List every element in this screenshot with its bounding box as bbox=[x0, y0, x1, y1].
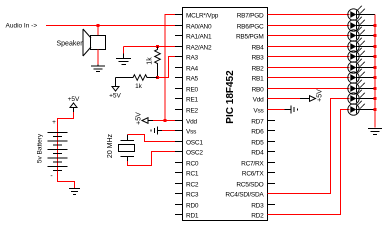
node: junction of R1, R2 and RA3 wire bbox=[156, 76, 159, 79]
battery BT1 5v bbox=[48, 119, 68, 180]
wire: Audio In to RA0/AN0 bbox=[46, 25, 183, 27]
svg-text:RE1: RE1 bbox=[186, 96, 199, 103]
pin 14 OSC2 (left) bbox=[175, 149, 203, 156]
svg-text:+5V: +5V bbox=[109, 93, 121, 100]
pin 40 RB7/PGD (right) bbox=[237, 12, 275, 19]
pin 6 RA4 (left) bbox=[175, 65, 199, 72]
pin 28 RD5 (right) bbox=[251, 139, 275, 146]
svg-text:RE0: RE0 bbox=[186, 86, 199, 93]
svg-text:RE2: RE2 bbox=[186, 107, 199, 114]
svg-text:RC2: RC2 bbox=[186, 181, 199, 188]
pin 26 RC7/RX (right) bbox=[241, 160, 275, 167]
pin 1 MCLR*/Vpp (left) bbox=[175, 12, 219, 19]
node: bus junction row 5 bbox=[374, 55, 377, 58]
pin 34 RB1 (right) bbox=[252, 75, 275, 82]
wire: +5V arrow to Vdd pin bbox=[153, 120, 183, 122]
pin 7 RA5 (left) bbox=[175, 75, 199, 82]
wire: LED D8 cathode to bus bbox=[357, 88, 376, 90]
wire: RB5 to LED D3 bbox=[268, 35, 350, 37]
node: bus junction row 2 bbox=[374, 24, 377, 27]
svg-text:RA3: RA3 bbox=[186, 54, 199, 61]
wire: RB6 to LED D2 bbox=[268, 25, 350, 27]
svg-text:Audio In ->: Audio In -> bbox=[6, 23, 38, 30]
wire: MCLR*/Vpp to Vdd (+5V) bbox=[165, 15, 183, 121]
svg-text:RA2/AN2: RA2/AN2 bbox=[186, 44, 212, 51]
node: bus junction row 9 bbox=[374, 97, 377, 100]
svg-text:RA4: RA4 bbox=[186, 65, 199, 72]
wire: RC4/SDI/SDA to LED D9 bbox=[268, 99, 350, 194]
node: bus junction row 7 bbox=[374, 76, 377, 79]
svg-text:+: + bbox=[52, 119, 56, 126]
pin 11 Vdd (left) bbox=[175, 118, 197, 125]
resistor R1 1k (vertical) bbox=[155, 47, 161, 78]
wire: LED D9 cathode to bus bbox=[357, 98, 376, 100]
svg-text:PIC 18F452: PIC 18F452 bbox=[225, 70, 236, 124]
pin 22 RD3 (right) bbox=[251, 202, 275, 209]
node: bus junction row 6 bbox=[374, 66, 377, 69]
+5V supply arrow (Vdd right) bbox=[300, 96, 316, 102]
pin 39 RB6/PGC (right) bbox=[237, 23, 275, 30]
svg-text:RB3: RB3 bbox=[252, 54, 265, 61]
svg-text:RC0: RC0 bbox=[186, 160, 199, 167]
svg-text:RD0: RD0 bbox=[186, 202, 199, 209]
node: MCLR wire joins Vdd wire bbox=[164, 119, 167, 122]
ground (Vss left, sideways) bbox=[151, 127, 162, 135]
pin 37 RB4 (right) bbox=[252, 44, 275, 51]
wire: Vdd right to +5V bbox=[268, 98, 301, 100]
ground (LED bus) bbox=[368, 129, 382, 135]
wire: Vss right to ground bbox=[268, 109, 285, 111]
wire: LED D4 cathode to bus bbox=[357, 46, 376, 48]
wire: Vss pin to ground bbox=[162, 130, 183, 132]
pin 8 RE0 (left) bbox=[175, 86, 199, 93]
wire: speaker bottom to ground bbox=[97, 50, 99, 65]
pin 38 RB5/PGM (right) bbox=[236, 33, 275, 40]
pin 12 Vss (left) bbox=[175, 128, 197, 135]
pin 4 RA2/AN2 (left) bbox=[175, 44, 212, 51]
node: RA2 / top of 1k resistor bbox=[156, 45, 159, 48]
svg-text:RB1: RB1 bbox=[252, 75, 265, 82]
LED D8 bbox=[348, 79, 366, 94]
resistor R2 1k (horizontal) bbox=[116, 75, 158, 81]
svg-text:RC1: RC1 bbox=[186, 170, 199, 177]
wire: RB2 to LED D6 bbox=[268, 67, 350, 69]
pin 21 RD2 (right) bbox=[251, 212, 275, 219]
pin 35 RB2 (right) bbox=[252, 65, 275, 72]
wire: LED D3 cathode to bus bbox=[357, 35, 376, 37]
wire: RB7 to LED D1 bbox=[268, 14, 350, 16]
svg-text:RB7/PGD: RB7/PGD bbox=[237, 12, 264, 19]
svg-text:Vss: Vss bbox=[253, 107, 264, 114]
wire: RD2 to LED D10 bbox=[268, 110, 350, 215]
wire: RB3 to LED D5 bbox=[268, 56, 350, 58]
pin 27 RD4 (right) bbox=[251, 149, 275, 156]
wire: RB1 to LED D7 bbox=[268, 77, 350, 79]
node: bus junction row 3 bbox=[374, 34, 377, 37]
pin 3 RA1/AN1 (left) bbox=[175, 33, 212, 40]
wire: LED D1 cathode to bus bbox=[357, 14, 376, 16]
node: bus junction row 10 bbox=[374, 108, 377, 111]
svg-text:RB4: RB4 bbox=[252, 44, 265, 51]
svg-text:1k: 1k bbox=[135, 83, 143, 90]
pin 16 RC1 (left) bbox=[175, 170, 199, 177]
ground (battery) bbox=[69, 189, 80, 195]
svg-text:Vdd: Vdd bbox=[253, 96, 264, 103]
svg-text:OSC2: OSC2 bbox=[186, 149, 203, 156]
LED D2 bbox=[348, 16, 366, 31]
LED D6 bbox=[348, 58, 366, 73]
svg-text:OSC1: OSC1 bbox=[186, 139, 203, 146]
pin 2 RA0/AN0 (left) bbox=[175, 23, 212, 30]
ground (Vss right, sideways) bbox=[285, 106, 298, 114]
ground (RA2 divider) bbox=[116, 54, 131, 65]
wire: RB0 to LED D8 bbox=[268, 88, 350, 90]
wire: LED D5 cathode to bus bbox=[357, 56, 376, 58]
svg-text:MCLR*/Vpp: MCLR*/Vpp bbox=[186, 12, 219, 19]
wire: ground to RA2/AN2 bbox=[124, 47, 183, 54]
svg-text:RC4/SDI/SDA: RC4/SDI/SDA bbox=[225, 191, 264, 198]
wire: LED D2 cathode to bus bbox=[357, 25, 376, 27]
svg-text:RA1/AN1: RA1/AN1 bbox=[186, 33, 212, 40]
svg-text:Vdd: Vdd bbox=[186, 118, 197, 125]
svg-text:Vss: Vss bbox=[186, 128, 197, 135]
svg-text:5v Battery: 5v Battery bbox=[37, 133, 44, 163]
svg-text:RD3: RD3 bbox=[251, 202, 264, 209]
svg-text:1k: 1k bbox=[147, 57, 154, 65]
svg-text:RB6/PGC: RB6/PGC bbox=[237, 23, 264, 30]
node: bus junction row 8 bbox=[374, 87, 377, 90]
wire: crystal top to OSC1 bbox=[128, 135, 183, 142]
wire: LED D7 cathode to bus bbox=[357, 77, 376, 79]
LED D7 bbox=[348, 68, 366, 83]
pin 13 OSC1 (left) bbox=[175, 139, 203, 146]
pin 23 RC4/SDI/SDA (right) bbox=[225, 191, 275, 198]
pin 5 RA3 (left) bbox=[175, 54, 199, 61]
LED D4 bbox=[348, 37, 366, 52]
svg-text:RC3: RC3 bbox=[186, 191, 199, 198]
svg-text:RD4: RD4 bbox=[251, 149, 264, 156]
svg-text:RD1: RD1 bbox=[186, 212, 199, 219]
node: speaker junction on audio line bbox=[97, 24, 100, 27]
svg-text:RC5/SDO: RC5/SDO bbox=[236, 181, 263, 188]
pin 9 RE1 (left) bbox=[175, 96, 199, 103]
wire: LED D10 cathode to bus bbox=[357, 109, 376, 111]
wire: RB4 to LED D4 bbox=[268, 46, 350, 48]
wire: crystal bottom to OSC2 bbox=[128, 152, 183, 166]
+5V supply arrow (Vdd left) bbox=[142, 118, 153, 124]
svg-text:20 MHz: 20 MHz bbox=[107, 133, 114, 158]
svg-text:+5V: +5V bbox=[136, 112, 143, 125]
svg-text:RD2: RD2 bbox=[251, 212, 264, 219]
wire: audio line to speaker top bbox=[97, 26, 99, 36]
pin 32 Vdd (right) bbox=[253, 96, 275, 103]
svg-text:RA0/AN0: RA0/AN0 bbox=[186, 23, 212, 30]
op: IC U1 PIC 18F452 body bbox=[183, 8, 268, 221]
pin 36 RB3 (right) bbox=[252, 54, 275, 61]
svg-text:RB2: RB2 bbox=[252, 65, 265, 72]
pin 15 RC0 (left) bbox=[175, 160, 199, 167]
svg-text:-: - bbox=[50, 173, 53, 180]
ground (speaker) bbox=[91, 65, 105, 72]
wire: +5V arrow to battery + bbox=[58, 112, 74, 129]
LED D1 bbox=[348, 5, 366, 20]
LED D5 bbox=[348, 47, 366, 62]
pin 33 RB0 (right) bbox=[252, 86, 275, 93]
pin 10 RE2 (left) bbox=[175, 107, 199, 114]
pin 19 RD0 (left) bbox=[175, 202, 199, 209]
svg-text:+5V: +5V bbox=[317, 89, 324, 102]
LED D3 bbox=[348, 26, 366, 41]
pin 31 Vss (right) bbox=[253, 107, 275, 114]
pin 17 RC2 (left) bbox=[175, 181, 199, 188]
+5V supply arrow (battery) bbox=[70, 103, 77, 112]
pin 29 RD6 (right) bbox=[251, 128, 275, 135]
pin 20 RD1 (left) bbox=[175, 212, 199, 219]
pin 18 RC3 (left) bbox=[175, 191, 199, 198]
pin 30 RD7 (right) bbox=[251, 118, 275, 125]
svg-text:Speaker: Speaker bbox=[57, 41, 84, 48]
speaker LS1 bbox=[83, 29, 106, 56]
svg-text:RD7: RD7 bbox=[251, 118, 264, 125]
svg-text:RD6: RD6 bbox=[251, 128, 264, 135]
svg-text:RA5: RA5 bbox=[186, 75, 199, 82]
svg-text:RC7/RX: RC7/RX bbox=[241, 160, 264, 167]
wire: battery - to ground bbox=[58, 171, 75, 189]
svg-text:+5V: +5V bbox=[68, 96, 80, 103]
+5V supply arrow (divider) bbox=[112, 78, 119, 92]
wire: LED cathode bus bbox=[374, 15, 376, 128]
svg-text:RB0: RB0 bbox=[252, 86, 265, 93]
LED D9 bbox=[348, 89, 366, 104]
wire: divider junction up to RA3 bbox=[158, 57, 183, 78]
pin 25 RC6/TX (right) bbox=[242, 170, 275, 177]
svg-text:RD5: RD5 bbox=[251, 139, 264, 146]
pin 24 RC5/SDO (right) bbox=[236, 181, 275, 188]
LED D10 bbox=[348, 100, 366, 115]
crystal Y1 20 MHz bbox=[119, 135, 135, 162]
wire: LED D6 cathode to bus bbox=[357, 67, 376, 69]
node: bus junction row 4 bbox=[374, 45, 377, 48]
svg-text:RC6/TX: RC6/TX bbox=[242, 170, 265, 177]
svg-text:RB5/PGM: RB5/PGM bbox=[236, 33, 264, 40]
